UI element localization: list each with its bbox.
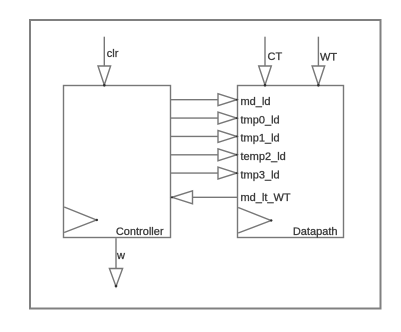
- svg-text:clr: clr: [107, 48, 119, 60]
- svg-text:temp2_ld: temp2_ld: [241, 151, 286, 163]
- svg-text:Datapath: Datapath: [293, 226, 338, 238]
- svg-text:tmp1_ld: tmp1_ld: [241, 133, 280, 145]
- svg-text:tmp3_ld: tmp3_ld: [241, 169, 280, 181]
- svg-text:w: w: [116, 250, 125, 262]
- svg-text:md_lt_WT: md_lt_WT: [241, 192, 291, 204]
- svg-text:Controller: Controller: [116, 226, 164, 238]
- svg-text:CT: CT: [268, 51, 283, 63]
- svg-text:md_ld: md_ld: [241, 96, 271, 108]
- svg-text:WT: WT: [320, 52, 337, 64]
- svg-text:tmp0_ld: tmp0_ld: [241, 114, 280, 126]
